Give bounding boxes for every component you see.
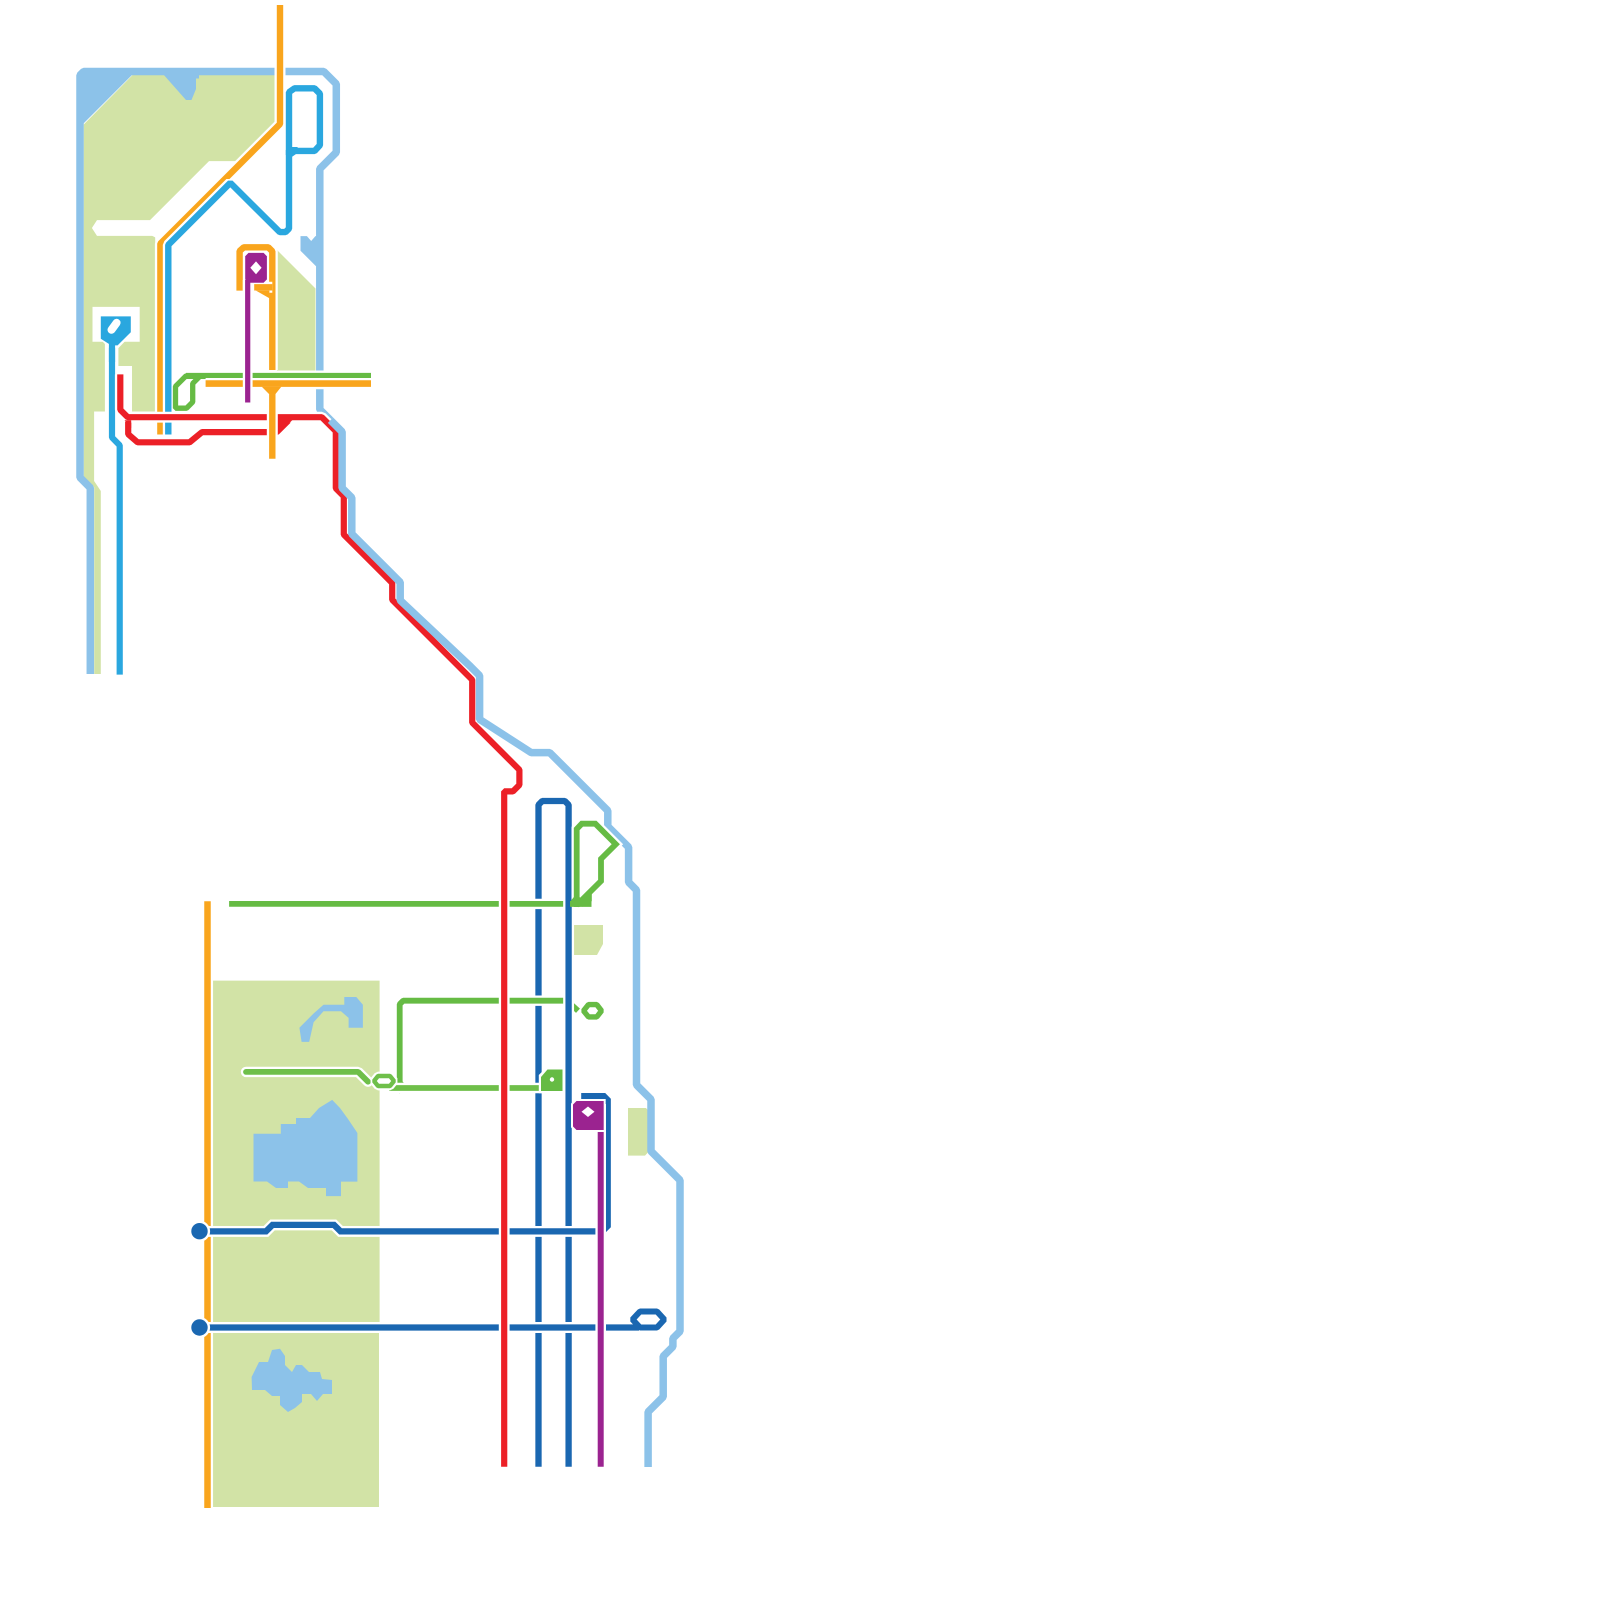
land SE patch	[271, 244, 316, 371]
land square B	[628, 1108, 651, 1156]
dark blue hook line north	[205, 1096, 608, 1231]
green junction diamond	[393, 1078, 406, 1094]
light green station bubble	[374, 1076, 394, 1086]
white cutout shield/channel	[93, 307, 140, 412]
dark blue dot south	[189, 1317, 210, 1338]
coast flag hook	[301, 236, 323, 266]
blue loop ring	[289, 88, 320, 155]
green line 2	[400, 1001, 578, 1085]
purple line 2 leg	[595, 1104, 606, 1467]
orange bracket around purple loop	[240, 247, 273, 370]
light green line	[246, 1072, 368, 1082]
orange main line	[160, 5, 280, 435]
dark blue right leg	[563, 888, 574, 1467]
park north	[213, 981, 380, 1323]
dark blue line south	[205, 1322, 639, 1333]
orange finger	[254, 282, 272, 293]
loop corner fill	[286, 147, 298, 159]
purple loop 2	[573, 1101, 604, 1130]
green pennant loop	[577, 824, 616, 907]
lake big blob	[254, 1100, 358, 1196]
lake river	[299, 997, 363, 1042]
shield tail join	[109, 344, 115, 362]
green line y904	[229, 899, 591, 909]
land NW mass	[84, 75, 276, 675]
green capsule	[584, 1005, 602, 1017]
blue main line	[168, 150, 289, 435]
green T junction fill	[571, 894, 583, 907]
dark blue n-loop + left leg	[539, 801, 569, 1467]
blue shield loop	[99, 314, 134, 348]
white corridor cut	[92, 161, 237, 239]
park south	[213, 1333, 380, 1508]
red line main	[120, 374, 519, 1466]
dark blue capsule	[633, 1312, 665, 1328]
lake small blob	[252, 1349, 332, 1412]
water corner triangle	[83, 74, 133, 124]
blue branch line SW	[112, 343, 120, 675]
purple diamond 2	[582, 1107, 595, 1118]
green station square	[539, 1067, 565, 1093]
water V notch	[163, 74, 199, 100]
red line branch	[128, 416, 293, 442]
orange tee triangle	[262, 387, 282, 394]
purple diamond	[250, 261, 261, 274]
coastline south	[331, 420, 681, 1467]
green line west	[186, 371, 371, 382]
green line under pennant	[570, 901, 592, 907]
red merge chevron	[278, 417, 296, 435]
orange line SW vertical	[202, 901, 213, 1508]
green ring terminus	[176, 376, 201, 408]
orange line y384	[206, 378, 371, 389]
dark blue dot north	[189, 1221, 210, 1242]
orange fat corner	[256, 291, 269, 299]
land square A	[573, 925, 603, 955]
red branch corner fill	[125, 420, 132, 428]
orange tee tail	[267, 388, 278, 459]
purple loop	[245, 253, 267, 283]
pennant foot fill	[579, 889, 592, 902]
purple line tail	[243, 280, 253, 403]
coastline north	[80, 72, 336, 675]
light green line east	[389, 1083, 545, 1093]
